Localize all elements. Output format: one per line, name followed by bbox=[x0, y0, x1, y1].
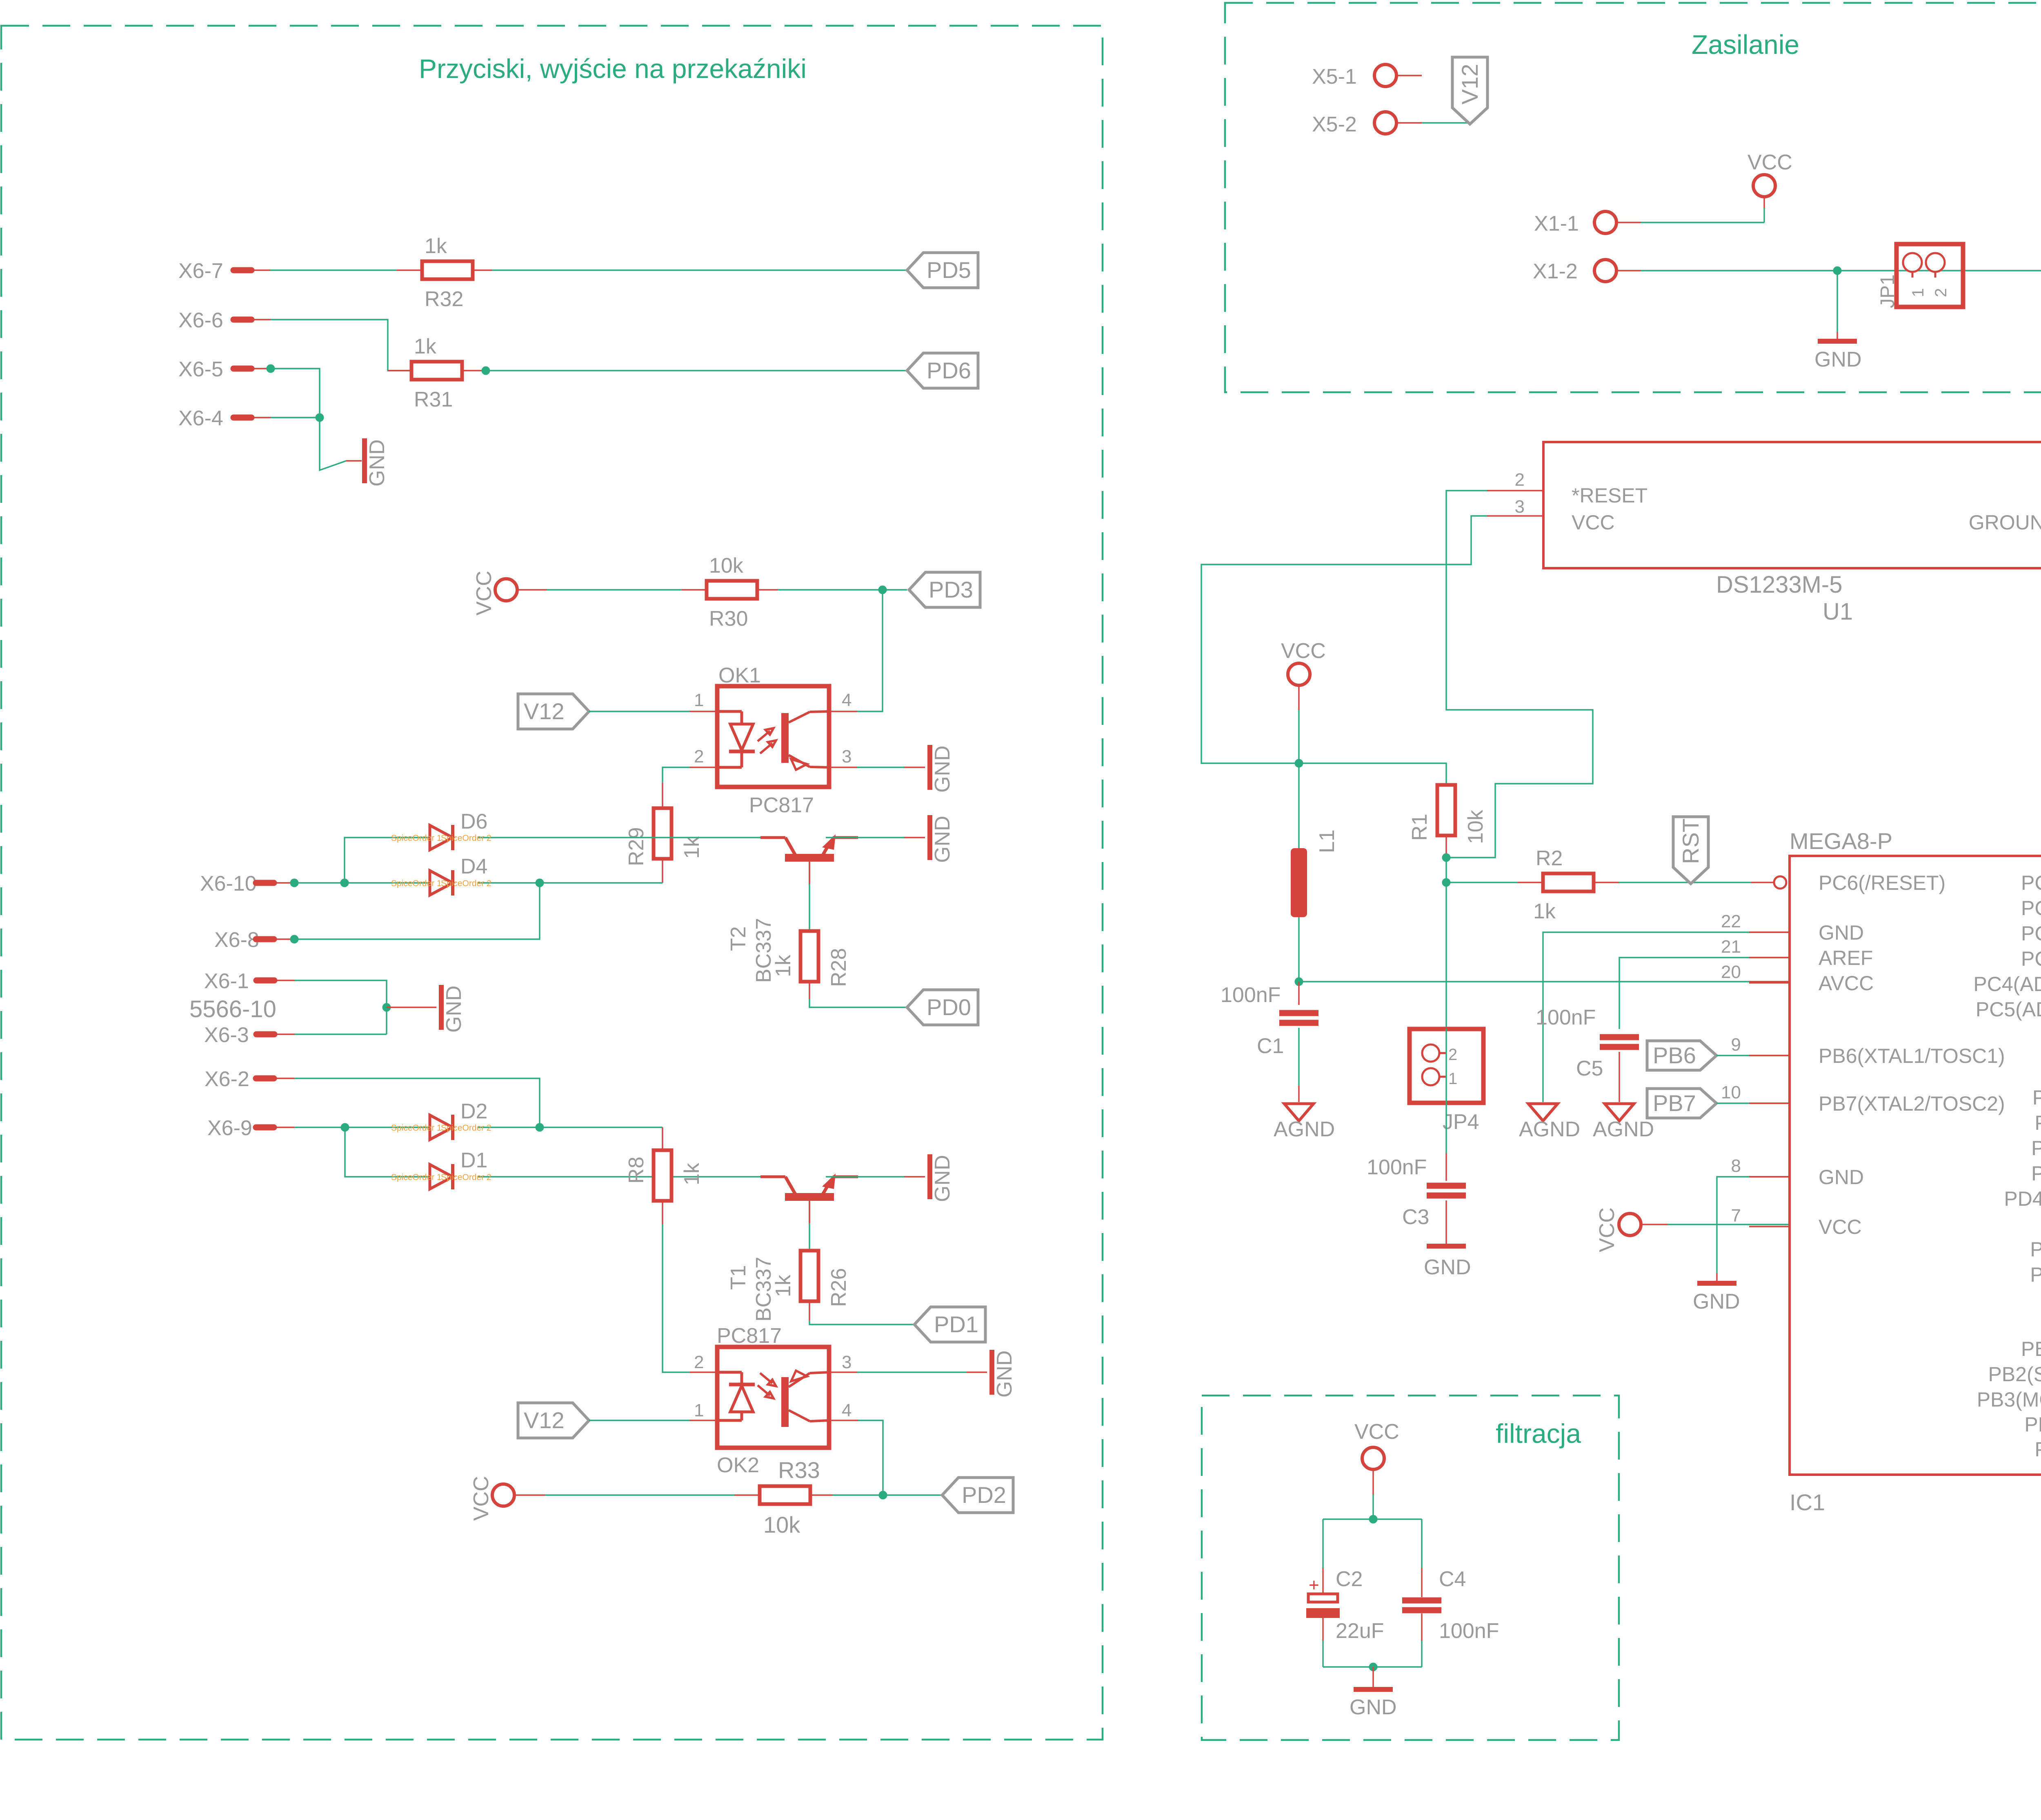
svg-text:AGND: AGND bbox=[1274, 1118, 1335, 1141]
svg-text:2: 2 bbox=[1932, 288, 1950, 297]
svg-text:3: 3 bbox=[1515, 497, 1525, 517]
svg-text:VCC: VCC bbox=[1819, 1216, 1862, 1238]
svg-text:1k: 1k bbox=[771, 954, 795, 977]
wire X1-1 to VCC bbox=[1617, 222, 1641, 223]
svg-text:PC0(ADC0): PC0(ADC0) bbox=[2021, 871, 2041, 894]
svg-text:GND: GND bbox=[365, 439, 389, 487]
svg-text:PD0(RXD): PD0(RXD) bbox=[2032, 1086, 2041, 1109]
wire R30 to PD3 and OK1 pin4 bbox=[757, 589, 778, 590]
svg-text:PC5(ADC5/SCL): PC5(ADC5/SCL) bbox=[1976, 998, 2041, 1021]
svg-text:PD6: PD6 bbox=[927, 358, 971, 383]
junction C2/C4 bottom bbox=[1369, 1663, 1378, 1671]
svg-text:C3: C3 bbox=[1402, 1205, 1429, 1229]
wire to GND (filtracja) bbox=[1372, 1667, 1374, 1688]
svg-text:GROUND: GROUND bbox=[1969, 511, 2041, 534]
svg-text:2: 2 bbox=[1448, 1046, 1457, 1064]
svg-text:PD0: PD0 bbox=[927, 994, 971, 1020]
resistor R31 1k bbox=[411, 362, 462, 380]
ground GND (C3) bbox=[1427, 1244, 1466, 1249]
flag PD5 bbox=[907, 253, 978, 288]
svg-text:R26: R26 bbox=[827, 1268, 851, 1307]
capacitor C2 22uF (electrolytic) bbox=[1322, 1519, 1323, 1568]
wire OK2 pin4 to PD2 junction bbox=[829, 1420, 858, 1421]
flag PD3 bbox=[909, 572, 980, 607]
diode D2 bbox=[430, 1115, 453, 1140]
svg-text:X6-7: X6-7 bbox=[178, 259, 223, 283]
resistor R29 1k (vertical) bbox=[662, 783, 663, 808]
capacitor C1 100nF bbox=[1298, 982, 1299, 1005]
svg-text:X5-2: X5-2 bbox=[1312, 113, 1357, 136]
wire R29 bottom to D4 row bbox=[662, 859, 663, 883]
svg-text:1k: 1k bbox=[680, 836, 704, 859]
svg-text:Przyciski, wyjście na przekaźn: Przyciski, wyjście na przekaźniki bbox=[419, 53, 807, 84]
junction X6-9 / X6-2 bbox=[536, 1123, 544, 1132]
svg-text:C1: C1 bbox=[1257, 1034, 1284, 1058]
junction X6-10 / X6-8 bbox=[536, 879, 544, 887]
svg-text:1k: 1k bbox=[1533, 900, 1556, 923]
svg-text:SpiceOrder 2: SpiceOrder 2 bbox=[441, 1173, 491, 1182]
svg-text:X6-8: X6-8 bbox=[214, 928, 259, 952]
svg-text:X1-2: X1-2 bbox=[1533, 260, 1578, 283]
ground GND (OK1 pin3) bbox=[927, 745, 932, 790]
wire X5-2 to V12 bbox=[1397, 122, 1422, 123]
wire C1 to AGND bbox=[1298, 1028, 1299, 1086]
svg-text:T2: T2 bbox=[727, 926, 750, 951]
svg-text:SpiceOrder 1: SpiceOrder 1 bbox=[391, 1173, 442, 1182]
svg-text:SpiceOrder 1: SpiceOrder 1 bbox=[391, 1123, 442, 1133]
wire X1-2 GND AGND rail bbox=[1617, 270, 1641, 271]
optocoupler OK1 PC817 bbox=[717, 686, 829, 787]
resistor R28 1k (vertical) bbox=[800, 931, 818, 982]
wire X6-6 to R31 bbox=[251, 319, 271, 320]
diode D1 bbox=[430, 1164, 453, 1189]
capacitor C4 100nF bbox=[1421, 1519, 1422, 1568]
svg-text:PC817: PC817 bbox=[749, 793, 814, 817]
svg-text:1k: 1k bbox=[425, 234, 447, 258]
wire to GND symbol bbox=[1836, 271, 1838, 332]
svg-text:GND: GND bbox=[931, 1155, 954, 1202]
svg-text:X6-6: X6-6 bbox=[178, 309, 223, 332]
svg-text:GND: GND bbox=[993, 1350, 1016, 1398]
svg-text:V12: V12 bbox=[524, 698, 565, 724]
wire R1 bottom junctions bbox=[1445, 836, 1447, 858]
svg-text:X6-4: X6-4 bbox=[178, 407, 223, 430]
svg-text:GND: GND bbox=[1819, 921, 1864, 944]
junction X6-10 a bbox=[290, 879, 299, 887]
wire VCC to pin7 bbox=[1641, 1224, 1667, 1225]
svg-text:PB7(XTAL2/TOSC2): PB7(XTAL2/TOSC2) bbox=[1819, 1092, 2005, 1115]
svg-text:R32: R32 bbox=[425, 287, 463, 311]
svg-text:C4: C4 bbox=[1439, 1567, 1466, 1591]
svg-text:10k: 10k bbox=[709, 554, 744, 578]
svg-text:X6-9: X6-9 bbox=[207, 1116, 252, 1140]
wire PB6 to pin9 bbox=[1716, 1055, 1749, 1056]
wire pin8 GND to ground bbox=[1749, 1176, 1790, 1177]
junction X6-9 a bbox=[341, 1123, 349, 1132]
flag V12 (OK1) bbox=[518, 694, 589, 729]
svg-text:3: 3 bbox=[842, 1352, 852, 1372]
wire V12 to OK2 pin1 bbox=[589, 1420, 690, 1421]
svg-text:GND: GND bbox=[1819, 1166, 1864, 1189]
svg-text:C5: C5 bbox=[1576, 1057, 1603, 1080]
resistor R8 1k (vertical) bbox=[662, 1127, 663, 1150]
flag V12 (OK2) bbox=[518, 1403, 589, 1438]
svg-text:L1: L1 bbox=[1315, 829, 1339, 853]
wire X6-9 row bbox=[274, 1127, 294, 1128]
svg-text:2: 2 bbox=[694, 1352, 704, 1372]
svg-text:GND: GND bbox=[1350, 1696, 1397, 1719]
wire VCC rail to L1 bbox=[1298, 686, 1299, 710]
wire T2 emitter to GND bbox=[826, 837, 904, 838]
svg-text:7: 7 bbox=[1731, 1206, 1741, 1226]
svg-text:PD3(INT1): PD3(INT1) bbox=[2031, 1162, 2041, 1185]
svg-text:SpiceOrder 1: SpiceOrder 1 bbox=[391, 833, 442, 843]
wire JP4 to C3 bbox=[1445, 1029, 1447, 1153]
ground AGND (C1) bbox=[1284, 1104, 1314, 1121]
svg-text:R33: R33 bbox=[778, 1457, 820, 1483]
flag RST (reset) bbox=[1673, 817, 1708, 884]
svg-text:R30: R30 bbox=[709, 607, 748, 631]
svg-text:OK1: OK1 bbox=[718, 664, 761, 687]
wire R2 row to IC pin1 bbox=[1446, 882, 1518, 883]
power VCC (R30) bbox=[495, 579, 517, 601]
svg-text:R1: R1 bbox=[1408, 814, 1432, 841]
svg-text:R29: R29 bbox=[625, 827, 648, 866]
wire cap top rail bbox=[1323, 1518, 1422, 1520]
svg-text:GND: GND bbox=[442, 985, 466, 1033]
svg-text:GND: GND bbox=[931, 745, 954, 793]
svg-text:AGND: AGND bbox=[1593, 1118, 1654, 1141]
svg-text:R31: R31 bbox=[414, 388, 453, 411]
svg-text:PD2(INT0): PD2(INT0) bbox=[2031, 1137, 2041, 1160]
wire VCC to R33 bbox=[514, 1494, 545, 1496]
svg-text:VCC: VCC bbox=[472, 571, 496, 616]
svg-text:V12: V12 bbox=[524, 1407, 565, 1433]
svg-text:PD4(XCK/T0): PD4(XCK/T0) bbox=[2004, 1187, 2041, 1210]
svg-text:PD5: PD5 bbox=[927, 257, 971, 283]
capacitor C5 100nF bbox=[1600, 1034, 1639, 1040]
svg-text:4: 4 bbox=[842, 1400, 852, 1420]
resistor R1 10k (vertical) bbox=[1437, 785, 1455, 836]
svg-text:20: 20 bbox=[1721, 962, 1741, 982]
junction R30/PD3/OK1 bbox=[878, 586, 887, 594]
svg-text:PB1(OC1A): PB1(OC1A) bbox=[2021, 1338, 2041, 1360]
wire AVCC row (pin20) bbox=[1299, 981, 1749, 982]
svg-text:PD1(TXD): PD1(TXD) bbox=[2034, 1111, 2041, 1134]
svg-text:U1: U1 bbox=[1823, 598, 1853, 625]
power VCC (R33) bbox=[492, 1484, 514, 1506]
svg-text:DS1233M-5: DS1233M-5 bbox=[1716, 571, 1842, 598]
svg-text:PD2: PD2 bbox=[962, 1482, 1006, 1508]
wire VCC junction to R1 bbox=[1299, 763, 1446, 785]
ground AGND (pin22) bbox=[1528, 1104, 1558, 1121]
wire R33 to PD2 bbox=[810, 1494, 833, 1496]
jumper JP4 bbox=[1410, 1029, 1483, 1103]
ground GND (OK2 pin3) bbox=[989, 1350, 994, 1395]
wire T2 collector to R28 bbox=[809, 862, 810, 884]
svg-text:100nF: 100nF bbox=[1439, 1619, 1499, 1643]
wire R26 to PD1 bbox=[809, 1301, 810, 1320]
svg-text:VCC: VCC bbox=[1354, 1420, 1399, 1444]
wire U1 pin3 VCC net bbox=[1487, 515, 1543, 516]
svg-text:AVCC: AVCC bbox=[1819, 972, 1874, 995]
svg-text:PC4(ADC4/SDA): PC4(ADC4/SDA) bbox=[1973, 973, 2041, 996]
wire OK2 pin3 to GND bbox=[829, 1371, 857, 1373]
svg-text:R28: R28 bbox=[827, 948, 851, 987]
svg-text:PB6(XTAL1/TOSC1): PB6(XTAL1/TOSC1) bbox=[1819, 1044, 2005, 1067]
wire C3 to GND bbox=[1445, 1200, 1447, 1244]
wire C5 to AGND bbox=[1619, 1052, 1620, 1102]
wire VCC to R30 bbox=[517, 589, 547, 590]
wire R32 to PD5 bbox=[473, 269, 492, 271]
junction C2/C4 top bbox=[1369, 1515, 1378, 1524]
diode D4 bbox=[430, 871, 453, 895]
MEGA8 pin1 circle bbox=[1774, 876, 1786, 889]
svg-text:10k: 10k bbox=[763, 1512, 800, 1538]
flag PB7 (xtal) bbox=[1647, 1089, 1716, 1118]
svg-text:AGND: AGND bbox=[1519, 1118, 1580, 1141]
ground GND (T2) bbox=[927, 815, 932, 860]
capacitor C3 100nF bbox=[1427, 1183, 1466, 1189]
svg-text:X6-1: X6-1 bbox=[204, 969, 249, 993]
IC1 left pin stubs and numbers bbox=[1749, 931, 1790, 933]
svg-text:C2: C2 bbox=[1336, 1567, 1363, 1591]
ground AGND (C5) bbox=[1605, 1104, 1634, 1121]
junction R1 bottom bbox=[1442, 853, 1451, 862]
wire AREF pin21 to C5 bbox=[1749, 957, 1790, 958]
svg-text:10k: 10k bbox=[1464, 809, 1487, 844]
svg-text:1k: 1k bbox=[771, 1274, 795, 1297]
svg-text:PD3: PD3 bbox=[929, 577, 973, 602]
frame: Zasilanie section dashed border bbox=[1225, 3, 2041, 392]
svg-text:100nF: 100nF bbox=[1536, 1006, 1596, 1029]
svg-text:PC6(/RESET): PC6(/RESET) bbox=[1819, 871, 1945, 894]
resistor R2 1k bbox=[1543, 873, 1594, 891]
transistor T1 BC337 bbox=[785, 1193, 834, 1201]
junction X6-10 b bbox=[340, 879, 349, 887]
ground GND (pin8) bbox=[1697, 1281, 1736, 1286]
svg-text:PC817: PC817 bbox=[717, 1324, 782, 1348]
svg-text:JP4: JP4 bbox=[1443, 1110, 1479, 1134]
wire T1 collector to R26 bbox=[809, 1201, 810, 1223]
wire X6-2 to D2 row bbox=[274, 1078, 294, 1079]
svg-text:PD6(AIN0): PD6(AIN0) bbox=[2030, 1238, 2041, 1261]
wire X6-10 row bbox=[274, 882, 294, 883]
svg-text:1: 1 bbox=[694, 690, 704, 710]
flag PB6 (xtal) bbox=[1647, 1041, 1716, 1070]
ground GND (T1) bbox=[927, 1154, 932, 1199]
wire D6 row to T2 base bbox=[345, 838, 429, 883]
svg-text:D6: D6 bbox=[460, 810, 487, 833]
wire X6-3 to GND bbox=[274, 1033, 295, 1035]
svg-text:D1: D1 bbox=[460, 1149, 487, 1172]
junction X1-2/GND bbox=[1833, 267, 1842, 275]
wire VCC to cap rail bbox=[1372, 1469, 1374, 1495]
junction X6-5 wire start bbox=[267, 364, 275, 373]
resistor R33 10k bbox=[760, 1486, 810, 1504]
wire junction to GND bar bbox=[387, 1007, 436, 1008]
svg-text:D2: D2 bbox=[460, 1100, 487, 1123]
transistor T2 BC337 bbox=[785, 854, 834, 862]
svg-text:AREF: AREF bbox=[1819, 947, 1873, 969]
junction VCC/AVCC-U1 bbox=[1295, 759, 1303, 768]
svg-text:1k: 1k bbox=[680, 1162, 704, 1185]
svg-text:RST: RST bbox=[1678, 818, 1703, 864]
svg-text:GND: GND bbox=[931, 816, 954, 863]
svg-text:PD7(AIN1): PD7(AIN1) bbox=[2030, 1263, 2041, 1286]
svg-text:4: 4 bbox=[842, 690, 852, 710]
svg-text:X6-3: X6-3 bbox=[204, 1023, 249, 1047]
flag V12 (supply) bbox=[1452, 57, 1487, 124]
svg-text:1: 1 bbox=[1909, 288, 1927, 297]
svg-text:22: 22 bbox=[1721, 911, 1741, 931]
wire R8 bottom to OK2 pin2 bbox=[662, 1201, 663, 1224]
svg-text:GND: GND bbox=[1814, 348, 1862, 371]
svg-text:VCC: VCC bbox=[469, 1476, 493, 1521]
svg-text:PB5(SCK): PB5(SCK) bbox=[2034, 1438, 2041, 1461]
svg-text:GND: GND bbox=[1693, 1290, 1740, 1313]
svg-text:5566-10: 5566-10 bbox=[189, 996, 276, 1022]
svg-text:PB4(MISO): PB4(MISO) bbox=[2024, 1413, 2041, 1436]
svg-text:PB2(SS/OC1B): PB2(SS/OC1B) bbox=[1988, 1363, 2041, 1386]
IC U1 DS1233M-5 bbox=[1543, 442, 2041, 568]
svg-text:PB6: PB6 bbox=[1653, 1042, 1696, 1068]
svg-text:D4: D4 bbox=[460, 855, 487, 878]
flag PD6 bbox=[907, 353, 978, 388]
svg-text:VCC: VCC bbox=[1281, 639, 1326, 663]
svg-text:X1-1: X1-1 bbox=[1534, 212, 1579, 236]
ground GND (filtracja) bbox=[1354, 1687, 1393, 1692]
svg-text:OK2: OK2 bbox=[717, 1453, 759, 1477]
flag PD1 bbox=[914, 1307, 985, 1342]
wire PB7 to pin10 bbox=[1716, 1102, 1749, 1104]
svg-text:X6-10: X6-10 bbox=[200, 872, 257, 896]
svg-text:100nF: 100nF bbox=[1221, 983, 1281, 1007]
wire OK1 pin3 to GND bbox=[829, 767, 857, 768]
svg-text:T1: T1 bbox=[727, 1265, 750, 1290]
junction X6-8 bbox=[290, 935, 299, 944]
junction AVCC/C1 bbox=[1295, 978, 1303, 986]
jumper JP1 bbox=[1896, 244, 1963, 307]
svg-text:filtracja: filtracja bbox=[1496, 1418, 1581, 1449]
svg-text:*RESET: *RESET bbox=[1572, 484, 1647, 507]
junction R31-PD6 bbox=[482, 367, 490, 375]
svg-text:VCC: VCC bbox=[1595, 1207, 1619, 1252]
svg-text:MEGA8-P: MEGA8-P bbox=[1790, 828, 1892, 854]
IC IC1 MEGA8-P bbox=[1790, 856, 2041, 1475]
svg-text:X6-5: X6-5 bbox=[178, 358, 223, 381]
frame: filtracja section dashed border bbox=[1202, 1396, 1619, 1740]
junction X6-4/X6-5 bbox=[316, 413, 324, 422]
svg-text:SpiceOrder 2: SpiceOrder 2 bbox=[441, 833, 491, 843]
svg-text:21: 21 bbox=[1721, 937, 1741, 957]
ground GND (X6-1/X6-3) bbox=[439, 985, 444, 1030]
svg-text:1: 1 bbox=[694, 1400, 704, 1420]
svg-text:2: 2 bbox=[1515, 470, 1525, 490]
svg-text:R2: R2 bbox=[1536, 847, 1563, 870]
resistor R30 10k bbox=[707, 581, 757, 599]
wire L1 to AVCC row bbox=[1298, 917, 1299, 982]
wire OK1 pin2 to R29 bbox=[690, 767, 717, 768]
svg-text:3: 3 bbox=[842, 747, 852, 767]
resistor R26 1k (vertical) bbox=[800, 1251, 818, 1301]
wire V12 to OK1 pin1 bbox=[589, 711, 690, 712]
svg-text:2: 2 bbox=[694, 747, 704, 767]
svg-text:VCC: VCC bbox=[1748, 151, 1792, 174]
flag PD0 bbox=[907, 990, 978, 1025]
svg-text:PC2(ADC2): PC2(ADC2) bbox=[2021, 922, 2041, 945]
diode D6 bbox=[430, 825, 453, 850]
wire X6-7 to R32 bbox=[251, 269, 270, 271]
wire cap bottom rail bbox=[1323, 1666, 1422, 1667]
svg-text:1: 1 bbox=[1448, 1070, 1457, 1088]
svg-text:9: 9 bbox=[1731, 1035, 1741, 1055]
wire X5-1 stub bbox=[1397, 75, 1422, 76]
svg-text:IC1: IC1 bbox=[1790, 1489, 1825, 1515]
svg-text:JP1: JP1 bbox=[1877, 274, 1899, 308]
svg-text:VCC: VCC bbox=[1572, 511, 1615, 534]
junction X6-1/X6-3 bbox=[382, 1003, 391, 1012]
junction R33/OK2/PD2 bbox=[879, 1491, 887, 1500]
wire X6-4 to GND bbox=[251, 417, 271, 418]
wire R31 to PD6 bbox=[462, 370, 486, 371]
optocoupler OK2 PC817 bbox=[717, 1347, 829, 1448]
wire X6-1 to GND bbox=[274, 980, 295, 981]
svg-text:V12: V12 bbox=[1457, 64, 1483, 104]
ground GND (zasilanie) bbox=[1818, 339, 1857, 344]
flag PD2 bbox=[942, 1478, 1013, 1513]
svg-text:SpiceOrder 1: SpiceOrder 1 bbox=[391, 879, 442, 888]
svg-text:PC1(ADC1): PC1(ADC1) bbox=[2021, 897, 2041, 920]
inductor L1 bbox=[1298, 763, 1299, 848]
svg-text:GND: GND bbox=[1424, 1256, 1471, 1279]
svg-text:Zasilanie: Zasilanie bbox=[1692, 29, 1799, 60]
svg-text:10: 10 bbox=[1721, 1082, 1741, 1102]
svg-text:SpiceOrder 2: SpiceOrder 2 bbox=[441, 879, 491, 888]
svg-text:PB7: PB7 bbox=[1653, 1090, 1696, 1116]
frame: Przyciski section dashed border bbox=[1, 26, 1103, 1740]
wire T1 emitter to GND bbox=[826, 1176, 904, 1177]
svg-text:R8: R8 bbox=[625, 1157, 648, 1184]
svg-text:SpiceOrder 2: SpiceOrder 2 bbox=[441, 1123, 491, 1133]
wire GND pin22 to AGND bbox=[1749, 931, 1790, 933]
svg-text:PC3(ADC3): PC3(ADC3) bbox=[2021, 947, 2041, 970]
svg-text:X5-1: X5-1 bbox=[1312, 65, 1357, 89]
junction R2 branch bbox=[1442, 878, 1451, 887]
wire X6-8 to D4 row bbox=[274, 938, 294, 940]
svg-text:PD1: PD1 bbox=[934, 1311, 978, 1337]
svg-text:PB3(MOSI/OC2): PB3(MOSI/OC2) bbox=[1977, 1388, 2041, 1411]
svg-text:100nF: 100nF bbox=[1367, 1156, 1427, 1179]
svg-text:+: + bbox=[1309, 1575, 1319, 1595]
wire U1 pin2 RESET net bbox=[1487, 490, 1543, 491]
svg-text:8: 8 bbox=[1731, 1156, 1741, 1176]
resistor R32 1k bbox=[422, 261, 473, 279]
wire R28 to PD0 bbox=[809, 982, 810, 999]
svg-text:1k: 1k bbox=[414, 335, 437, 358]
ground GND (X6-4) bbox=[362, 438, 367, 483]
svg-text:X6-2: X6-2 bbox=[205, 1067, 249, 1091]
wire D1 row to T1 base bbox=[345, 1127, 429, 1177]
svg-text:22uF: 22uF bbox=[1336, 1619, 1384, 1643]
wire X6-5 branch bbox=[251, 368, 271, 369]
